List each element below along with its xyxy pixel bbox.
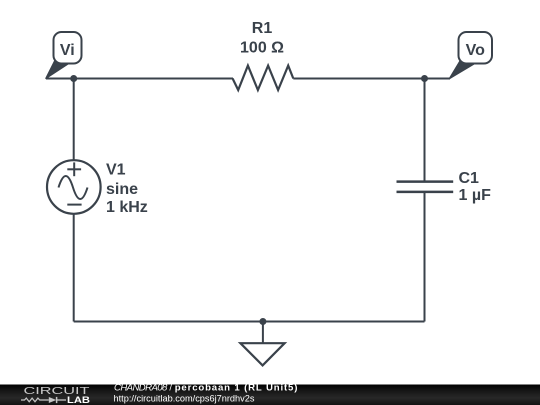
ground bbox=[240, 322, 284, 366]
svg-text:1 µF: 1 µF bbox=[459, 187, 492, 204]
svg-text:100 Ω: 100 Ω bbox=[240, 39, 284, 56]
svg-text:Vi: Vi bbox=[60, 42, 75, 59]
svg-text:1 kHz: 1 kHz bbox=[106, 199, 148, 216]
svg-text:R1: R1 bbox=[252, 20, 273, 37]
wire left vertical upper bbox=[73, 79, 75, 161]
node Vi junction dot bbox=[70, 75, 77, 82]
node Vo junction dot bbox=[421, 75, 428, 82]
wire left vertical lower bbox=[73, 214, 75, 322]
svg-text:sine: sine bbox=[106, 181, 138, 198]
flag Vo bbox=[450, 32, 492, 78]
svg-text:Vo: Vo bbox=[466, 42, 485, 59]
resistor R1 bbox=[233, 66, 294, 90]
capacitor C1 bbox=[397, 182, 454, 192]
wire bottom bbox=[74, 321, 425, 323]
footer bar bbox=[0, 385, 540, 405]
wire right vertical upper bbox=[424, 79, 426, 182]
logo diode bbox=[49, 397, 57, 403]
logo resistor squiggle bbox=[21, 398, 49, 402]
svg-text:C1: C1 bbox=[459, 170, 480, 187]
ground junction dot bbox=[259, 318, 266, 325]
source V1 bbox=[47, 160, 101, 214]
flag Vi bbox=[46, 32, 82, 78]
wire top right (R1 to Vo tail) bbox=[293, 78, 450, 80]
wire top left (Vi tail to R1) bbox=[46, 78, 233, 80]
svg-text:LAB: LAB bbox=[67, 395, 90, 405]
svg-text:CHANDRA08 / percobaan 1 (RL Un: CHANDRA08 / percobaan 1 (RL Unit5) bbox=[114, 382, 298, 393]
wire right vertical lower bbox=[424, 192, 426, 322]
svg-text:http://circuitlab.com/cps6j7nr: http://circuitlab.com/cps6j7nrdhv2s bbox=[114, 393, 255, 403]
svg-text:V1: V1 bbox=[106, 162, 126, 179]
